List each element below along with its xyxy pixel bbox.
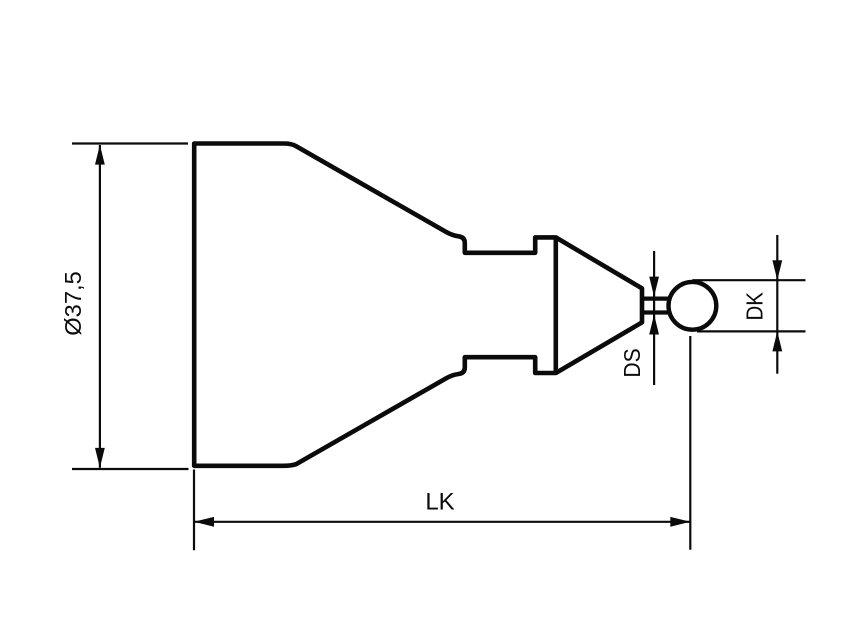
svg-text:DS: DS bbox=[619, 348, 645, 377]
svg-text:DK: DK bbox=[741, 292, 767, 321]
svg-text:LK: LK bbox=[425, 488, 454, 515]
svg-text:Ø37,5: Ø37,5 bbox=[60, 271, 86, 335]
